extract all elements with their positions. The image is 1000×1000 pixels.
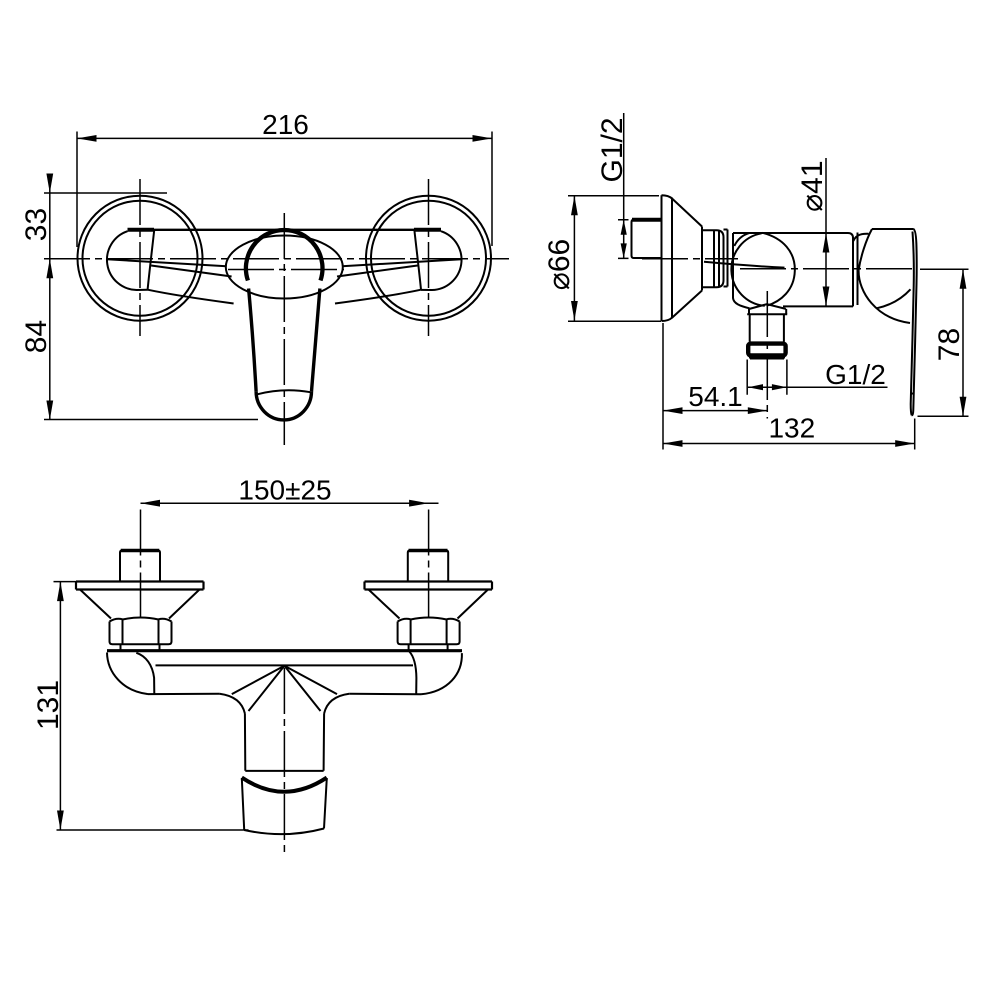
svg-text:216: 216 bbox=[262, 109, 309, 140]
svg-text:33: 33 bbox=[20, 208, 53, 241]
svg-text:78: 78 bbox=[933, 328, 966, 361]
svg-text:54.1: 54.1 bbox=[688, 381, 743, 412]
svg-text:⌀41: ⌀41 bbox=[796, 160, 829, 211]
svg-text:84: 84 bbox=[20, 320, 53, 353]
svg-text:G1/2: G1/2 bbox=[596, 117, 629, 182]
svg-text:131: 131 bbox=[32, 680, 65, 730]
svg-text:⌀66: ⌀66 bbox=[543, 239, 576, 290]
svg-text:150±25: 150±25 bbox=[238, 475, 331, 506]
svg-text:G1/2: G1/2 bbox=[825, 359, 886, 390]
svg-text:132: 132 bbox=[768, 413, 815, 444]
